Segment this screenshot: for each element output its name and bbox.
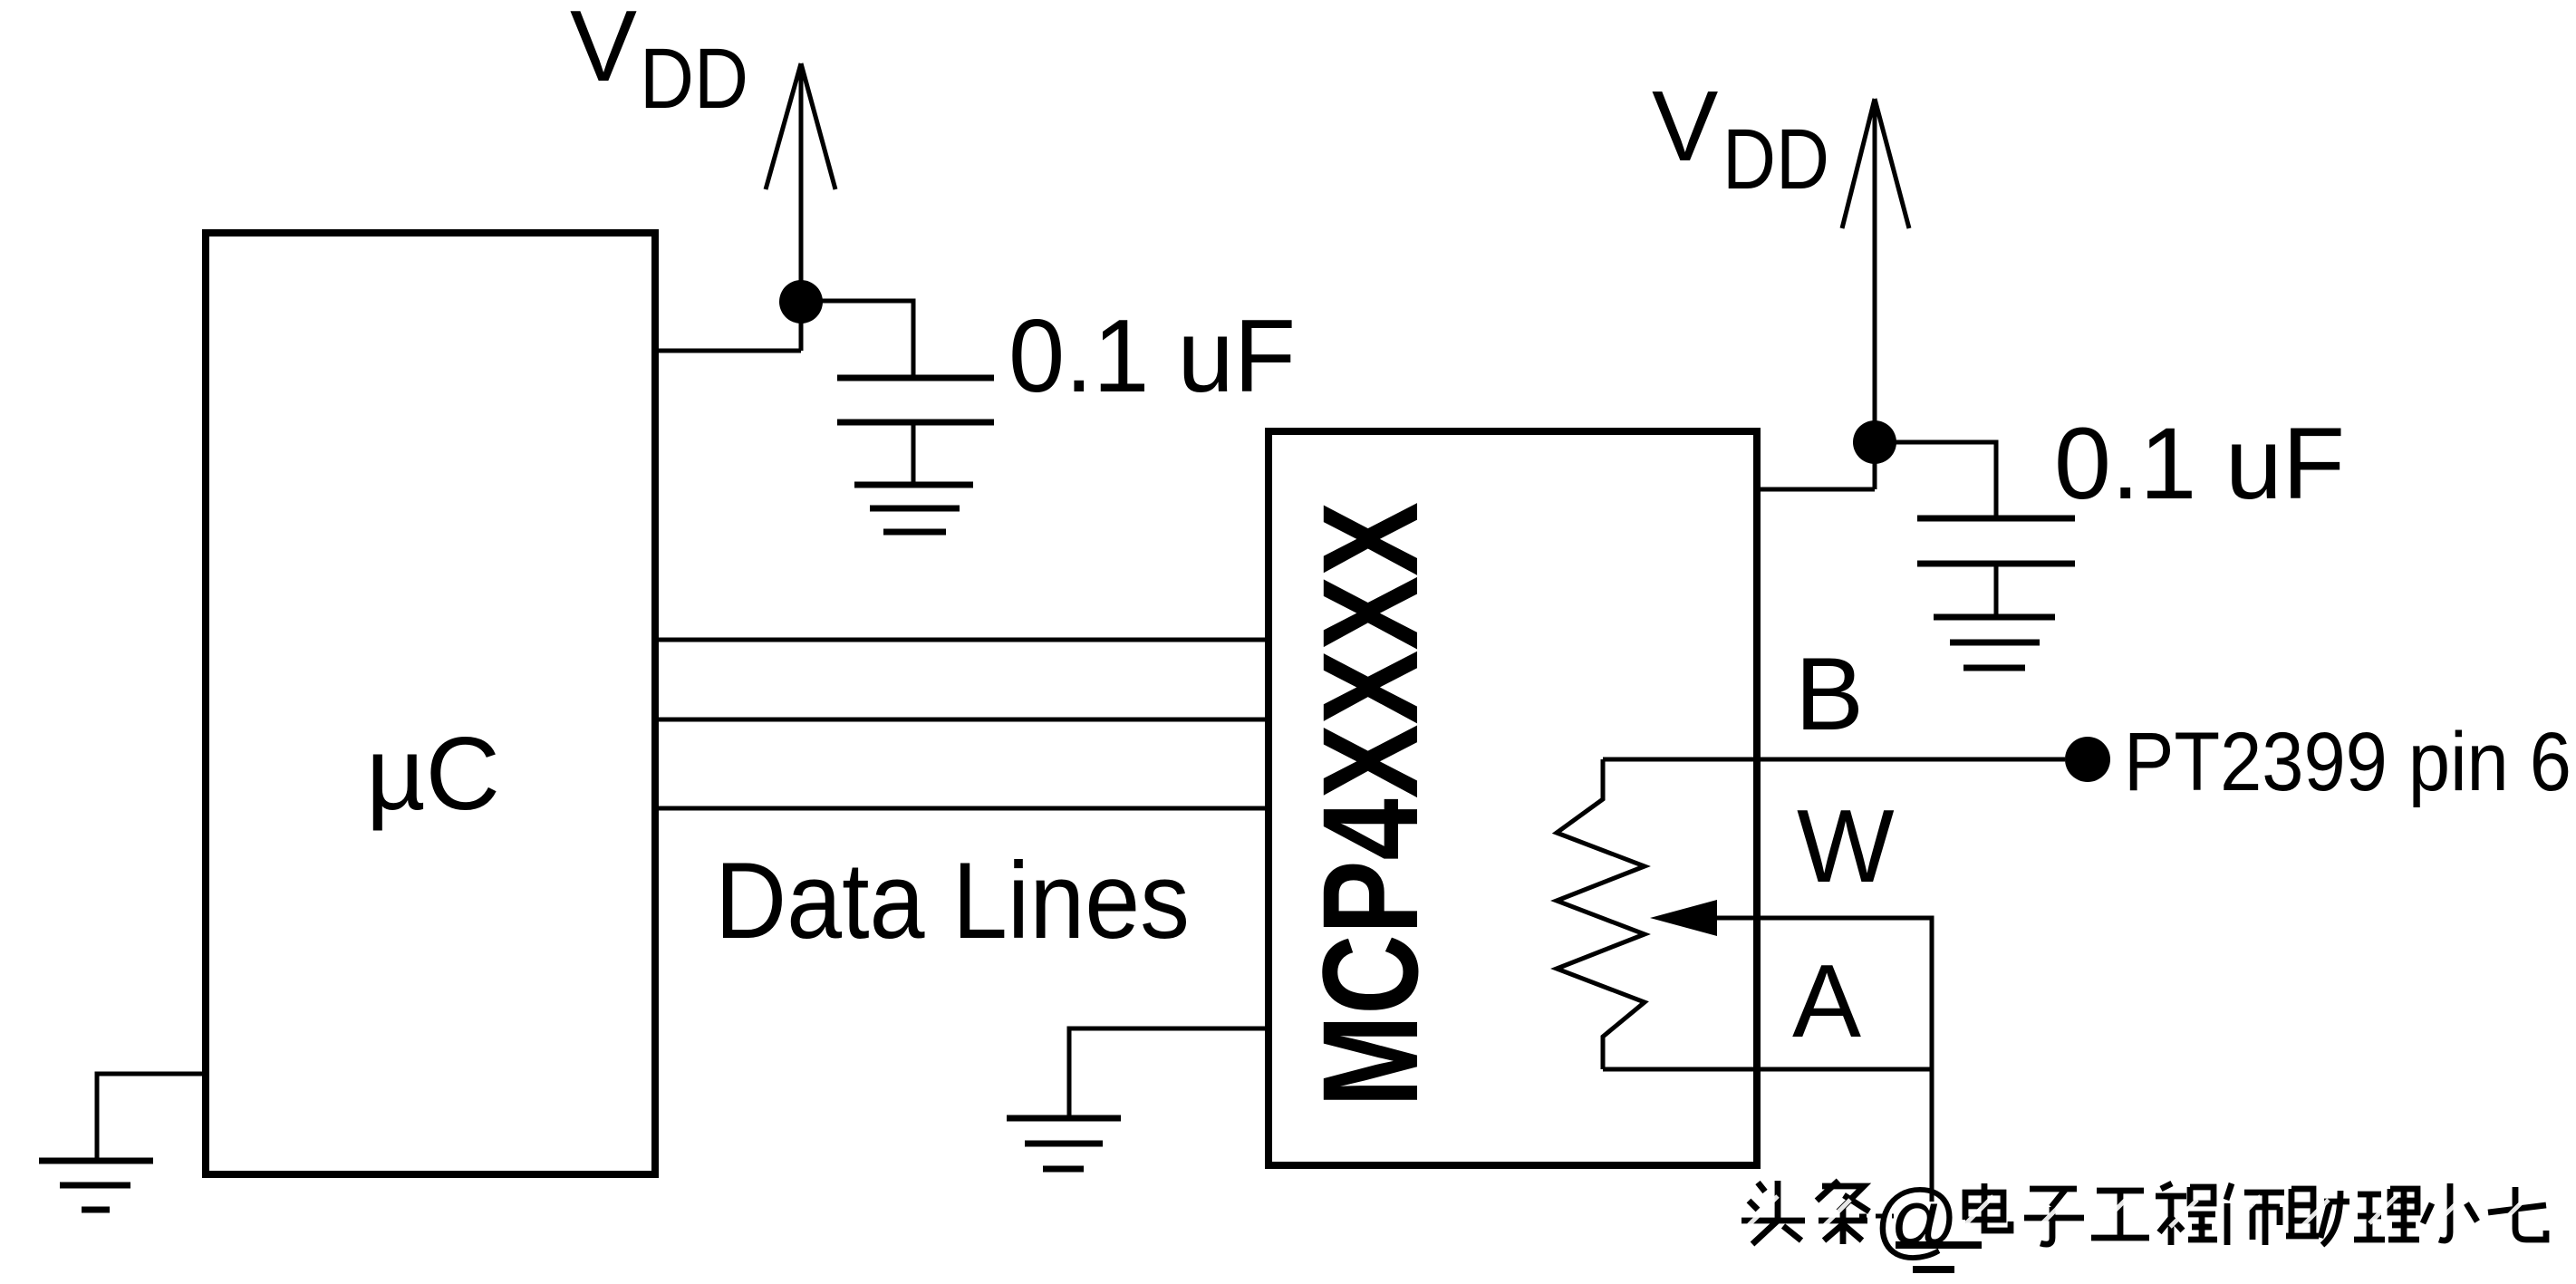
svg-text:DD: DD xyxy=(640,31,748,127)
svg-text:Data Lines: Data Lines xyxy=(715,840,1190,961)
svg-text:0.1 uF: 0.1 uF xyxy=(1008,299,1296,414)
svg-text:µC: µC xyxy=(366,717,500,832)
svg-text:A: A xyxy=(1792,944,1861,1059)
svg-text:MCP4XXXX: MCP4XXXX xyxy=(1294,502,1446,1107)
svg-text:0.1 uF: 0.1 uF xyxy=(2054,407,2345,520)
svg-text:PT2399 pin 6: PT2399 pin 6 xyxy=(2124,716,2571,808)
svg-text:V: V xyxy=(570,0,637,102)
svg-text:W: W xyxy=(1797,789,1895,904)
svg-text:DD: DD xyxy=(1722,111,1829,208)
svg-text:B: B xyxy=(1795,637,1864,752)
svg-text:@: @ xyxy=(1873,1172,1959,1267)
svg-text:V: V xyxy=(1652,71,1718,182)
